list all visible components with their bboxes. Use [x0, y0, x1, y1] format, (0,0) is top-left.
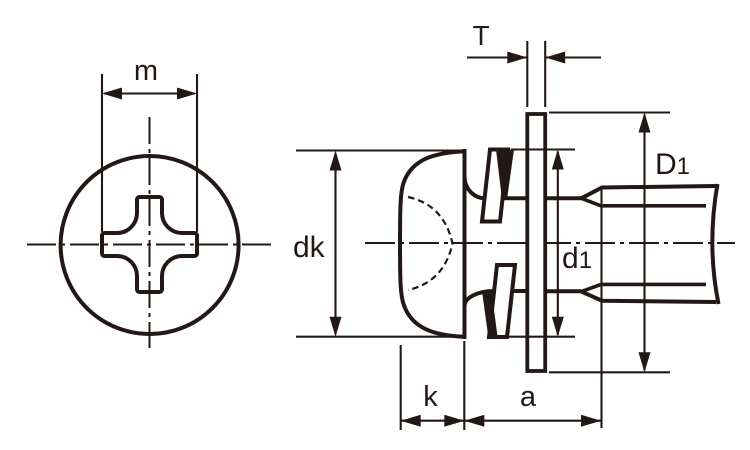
k/a shared extension line [463, 341, 465, 430]
shank fillet arc top [465, 177, 486, 199]
dimension m arrowhead right [177, 88, 197, 100]
T extension line right [544, 41, 546, 107]
head right face [463, 149, 467, 339]
right view horizontal centerline [365, 242, 735, 244]
svg-text:T: T [472, 20, 489, 51]
phillips recess cross outline [102, 197, 197, 292]
thread upper crest line [581, 186, 716, 198]
svg-text:dk: dk [293, 231, 326, 264]
shank top line between spring washer and flat washer [503, 196, 527, 200]
dk dimension line [334, 153, 336, 334]
svg-text:a: a [520, 381, 537, 413]
flat washer [527, 114, 545, 371]
T arrowhead pointing left [545, 52, 565, 64]
svg-text:D1: D1 [655, 148, 690, 181]
thread lower root line [581, 284, 706, 291]
spring washer bottom front parallelogram [489, 265, 515, 337]
shank bottom line between spring washer and flat washer [512, 289, 527, 293]
T arrowhead pointing right [507, 52, 527, 64]
T extension line left [526, 41, 528, 107]
spring washer bottom rear wedge (black section) [482, 291, 498, 337]
dimension m arrowhead left [102, 88, 122, 100]
head side profile dome [400, 151, 465, 337]
D1 arrowhead bottom [639, 352, 651, 372]
k arrowhead left [401, 415, 421, 427]
svg-text:k: k [423, 381, 438, 413]
left view vertical centerline [149, 117, 151, 348]
dk arrowhead top [330, 151, 342, 171]
dk extension line top [296, 149, 461, 151]
shank bottom line washer to thread [546, 289, 582, 293]
a arrowhead left [464, 415, 484, 427]
d1 extension line bottom [507, 336, 575, 338]
T dimension line right part [545, 56, 601, 58]
head front circle [61, 156, 239, 334]
shank top line washer to thread [546, 196, 582, 200]
D1 extension line top [549, 111, 670, 113]
spring washer top rear wedge (black section) [496, 150, 514, 200]
svg-text:m: m [134, 55, 158, 87]
thread lower crest line [581, 292, 716, 302]
spring washer top front parallelogram [482, 150, 508, 222]
a extension line right [600, 186, 602, 428]
dk arrowhead bottom [330, 317, 342, 337]
a arrowhead right [581, 415, 601, 427]
T dimension line left part [467, 56, 527, 58]
thread upper root line [581, 198, 706, 206]
a dimension line [464, 420, 601, 422]
dimension m extension line left [101, 74, 103, 232]
d1 dimension line [557, 152, 559, 335]
d1 extension line top [511, 148, 575, 150]
D1 dimension line [643, 115, 645, 371]
head recess depth dashed curve [408, 197, 453, 290]
k extension line left [400, 345, 402, 430]
d1 arrowhead top [552, 150, 564, 170]
left view horizontal centerline [27, 244, 272, 246]
D1 extension line bottom [549, 371, 670, 373]
dk extension line bottom [296, 336, 461, 338]
svg-text:d1: d1 [562, 242, 592, 275]
dimension m line [104, 92, 195, 94]
d1 arrowhead bottom [552, 317, 564, 337]
dimension m extension line right [196, 74, 198, 232]
D1 arrowhead top [639, 113, 651, 133]
k arrowhead right [444, 415, 464, 427]
k dimension line [401, 420, 465, 422]
shank break line right end [712, 184, 718, 304]
shank fillet arc bottom [465, 291, 495, 306]
